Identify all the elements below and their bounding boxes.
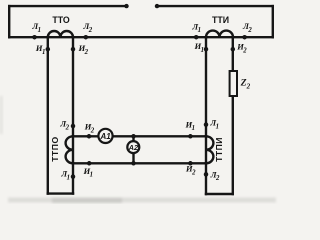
transformer TTPO secondary winding <box>66 136 73 163</box>
wire right vertical (supply to primary) <box>272 6 274 37</box>
node I2 TTPO <box>87 134 92 139</box>
node L2 TTO <box>84 35 89 40</box>
node L1 TTI <box>194 35 199 40</box>
transformer TTI secondary winding <box>206 31 233 38</box>
svg-text:А1: А1 <box>99 132 111 141</box>
ammeter A1 <box>98 129 112 143</box>
node L2 TTPI <box>204 172 209 177</box>
node L2 TTPO <box>71 124 76 129</box>
transformer TTPI secondary winding <box>206 136 213 163</box>
svg-text:ТТО: ТТО <box>52 15 70 25</box>
node I1 TTPO <box>87 161 92 166</box>
ammeter A2 <box>127 141 139 153</box>
node supply terminal left <box>124 4 128 8</box>
node L1 TTPO <box>71 174 76 179</box>
wire secondary bottom (TTPO I1 to TTPI I2) <box>73 162 206 164</box>
burden Z2 <box>230 71 237 96</box>
node A2 bottom junction <box>131 161 136 166</box>
node I2 TTO <box>71 47 76 52</box>
wire top rail left segment <box>9 5 126 7</box>
wire bottom-left rail <box>48 192 73 194</box>
node L2 TTI <box>242 35 247 40</box>
wire main primary line <box>9 36 273 38</box>
scan smudge bottom-left <box>52 198 122 203</box>
svg-text:ТТПО: ТТПО <box>50 136 60 161</box>
node I2 TTI <box>231 47 236 52</box>
node A2 top junction <box>131 134 136 139</box>
svg-text:А2: А2 <box>128 143 139 152</box>
svg-text:ТТИ: ТТИ <box>212 15 229 25</box>
wire secondary top (TTPO I2 to TTPI I1) <box>73 135 206 137</box>
wire TTO I1 drop (left column) <box>47 37 49 193</box>
wire A2 branch <box>132 136 134 163</box>
wire left vertical (supply to primary) <box>8 6 10 37</box>
transformer TTO secondary winding <box>48 31 73 37</box>
node I2 TTPI <box>188 161 193 166</box>
node I1 TTPI <box>188 134 193 139</box>
scan smudge bottom band <box>8 198 276 203</box>
node L1 TTO <box>32 35 37 40</box>
node I1 TTO <box>46 47 51 52</box>
wire bottom-right rail <box>206 193 233 195</box>
wire TTI I2 drop to Z2 and down <box>232 37 234 194</box>
wire top rail right segment <box>157 5 273 7</box>
node I1 TTI <box>204 47 209 52</box>
svg-text:ТТПИ: ТТПИ <box>214 137 224 162</box>
wire TTI I1 drop / TTPI primary <box>205 37 207 194</box>
scan smudge left edge <box>0 96 3 134</box>
node L1 TTPI <box>204 122 209 127</box>
wire TTO I2 drop / TTPO primary <box>72 37 74 193</box>
node supply terminal right <box>155 4 159 8</box>
